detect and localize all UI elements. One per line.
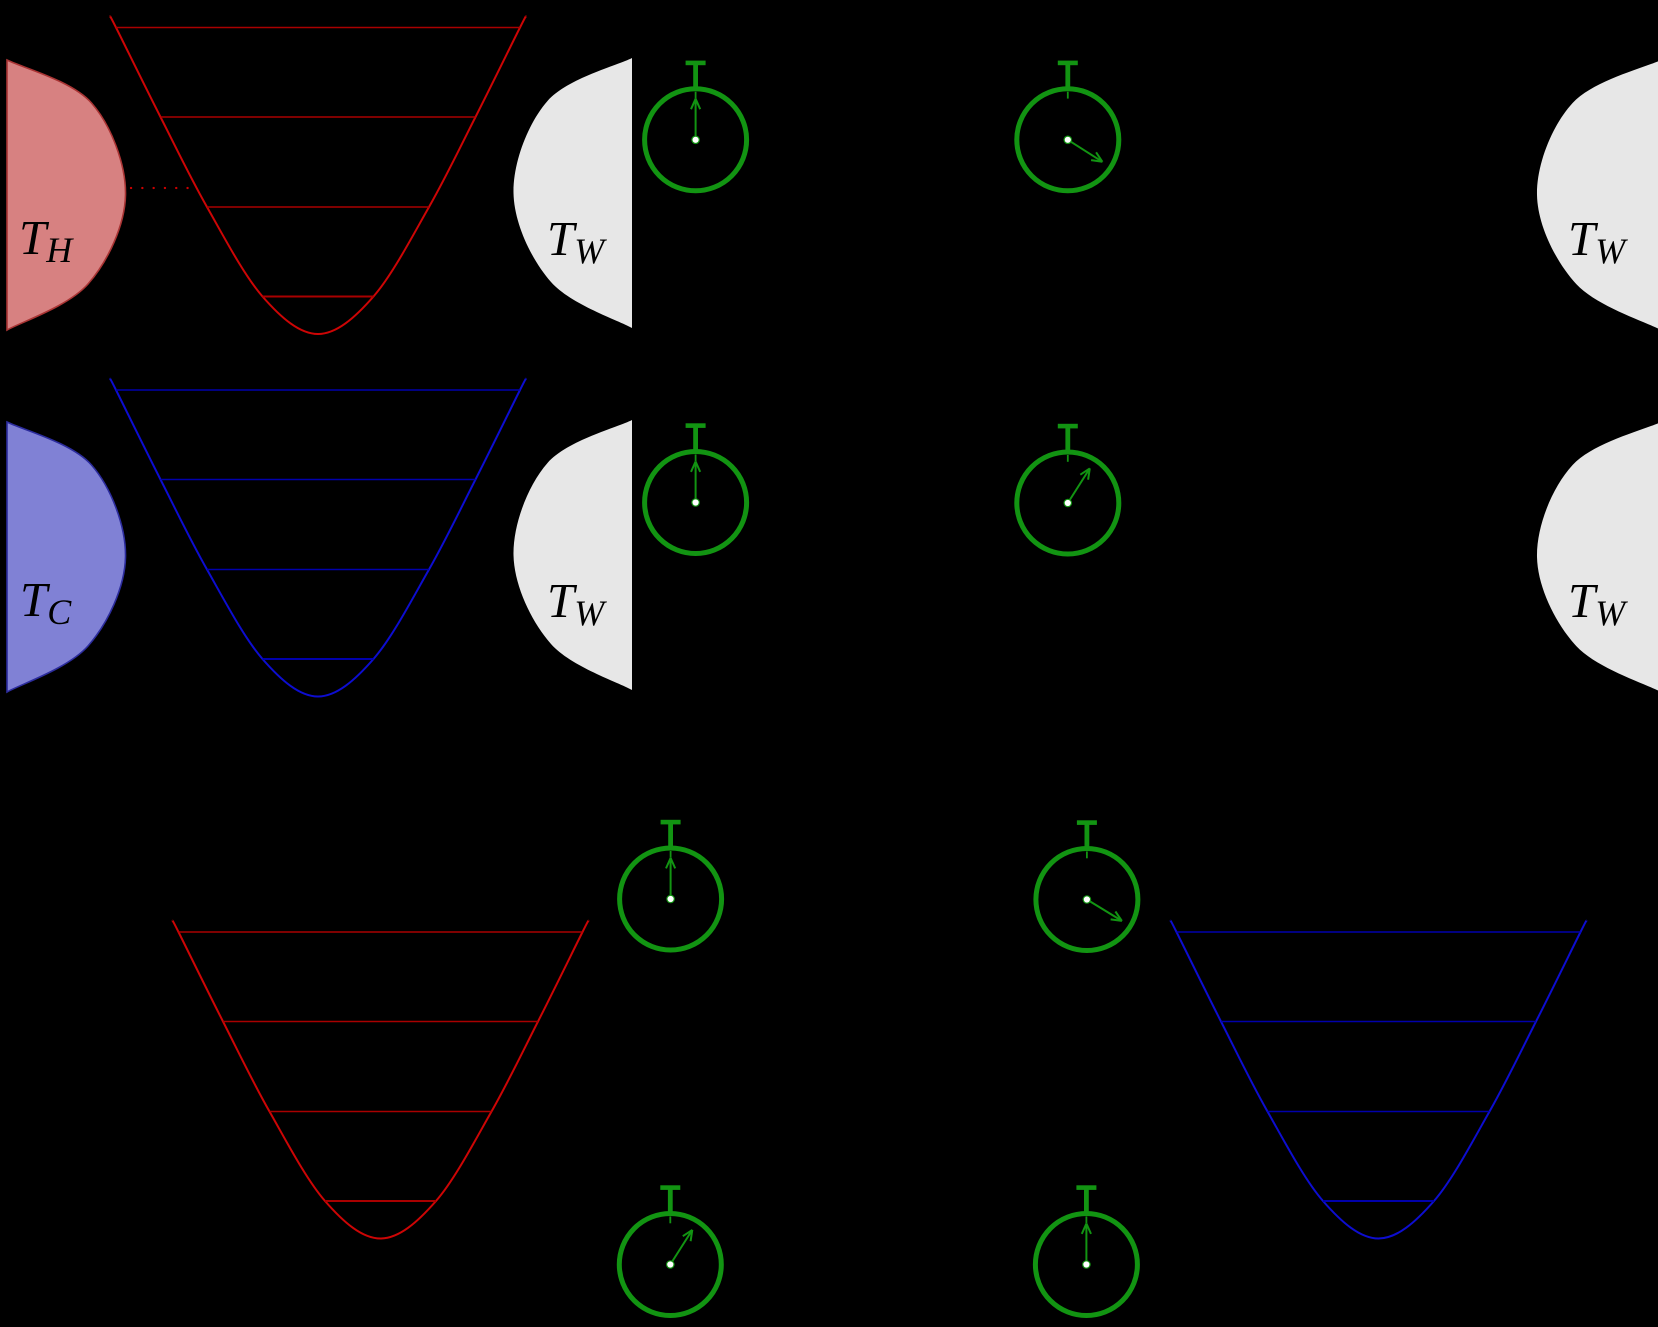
clock 4 (row2 right) hand — [1068, 468, 1090, 503]
bottom-right blue oscillator potential curve — [1171, 921, 1587, 1239]
clock 8 (row3 lower-right) stopwatch body — [1035, 1185, 1137, 1315]
hot bath T_H blob — [7, 60, 126, 330]
clock 7 (row3 lower-left) hand — [670, 1230, 692, 1265]
cold oscillator (mid-left blue) energy level 3 — [161, 479, 476, 481]
bottom-left red oscillator energy level 4 — [179, 931, 583, 933]
dotted coupling line between T_H bath and hot oscillator — [131, 187, 192, 189]
clock 1 (row1 left) stopwatch body — [645, 61, 747, 191]
work bath T_W blob (row2 middle) — [513, 420, 632, 690]
bottom-right blue oscillator energy level 4 — [1177, 931, 1581, 933]
clock 1 (row1 left) hand — [691, 99, 700, 140]
bottom-right blue oscillator energy level 2 — [1268, 1111, 1490, 1113]
bottom-left red oscillator potential curve — [173, 921, 589, 1239]
cold oscillator (mid-left blue) energy level 2 — [207, 569, 429, 571]
clock 4 (row2 right) stopwatch body — [1017, 424, 1119, 554]
cold oscillator (mid-left blue) energy level 4 — [116, 389, 520, 391]
hot oscillator (top-left red) energy level 1 — [263, 296, 374, 298]
cold oscillator (mid-left blue) energy level 1 — [263, 658, 374, 660]
bottom-left red oscillator energy level 2 — [270, 1111, 492, 1113]
clock 8 (row3 lower-right) center pivot — [1083, 1261, 1090, 1268]
clock 2 (row1 right) center pivot — [1064, 136, 1071, 143]
clock 3 (row2 left) center pivot — [692, 499, 699, 506]
cold bath T_C blob — [7, 422, 126, 692]
hot oscillator (top-left red) energy level 3 — [161, 116, 476, 118]
clock 6 (row3 upper-right) hand — [1087, 900, 1122, 921]
clock 3 (row2 left) stopwatch body — [645, 423, 747, 553]
clock 8 (row3 lower-right) hand — [1082, 1224, 1091, 1265]
clock 2 (row1 right) stopwatch body — [1017, 61, 1119, 191]
clock 5 (row3 upper-left) hand — [666, 858, 675, 899]
work bath T_W blob (row2 right) — [1537, 422, 1658, 692]
bottom-right blue oscillator energy level 3 — [1221, 1021, 1536, 1023]
hot oscillator (top-left red) potential curve — [110, 16, 526, 334]
clock 6 (row3 upper-right) stopwatch body — [1036, 820, 1138, 950]
clock 5 (row3 upper-left) stopwatch body — [620, 820, 722, 950]
clock 2 (row1 right) hand — [1068, 140, 1103, 162]
clock 7 (row3 lower-left) stopwatch body — [619, 1185, 721, 1315]
clock 4 (row2 right) center pivot — [1064, 499, 1071, 506]
work bath T_W blob (row1 right) — [1537, 60, 1658, 330]
hot oscillator (top-left red) energy level 4 — [116, 27, 520, 29]
clock 5 (row3 upper-left) center pivot — [667, 895, 674, 902]
cold oscillator (mid-left blue) potential curve — [110, 379, 526, 697]
work bath T_W blob (row1 middle) — [513, 58, 632, 328]
hot oscillator (top-left red) energy level 2 — [207, 206, 429, 208]
bottom-left red oscillator energy level 3 — [223, 1021, 538, 1023]
clock 3 (row2 left) hand — [691, 462, 700, 503]
bottom-right blue oscillator energy level 1 — [1323, 1200, 1434, 1202]
bottom-left red oscillator energy level 1 — [325, 1200, 436, 1202]
clock 1 (row1 left) center pivot — [692, 136, 699, 143]
clock 6 (row3 upper-right) center pivot — [1083, 896, 1090, 903]
clock 7 (row3 lower-left) center pivot — [667, 1261, 674, 1268]
